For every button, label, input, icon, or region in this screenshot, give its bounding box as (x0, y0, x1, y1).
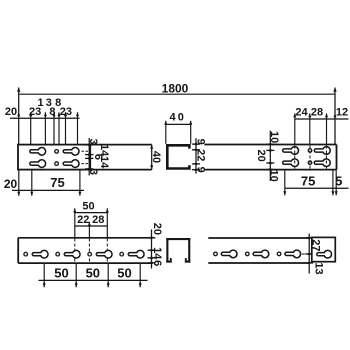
hole centerline vertical 3 (325, 146, 327, 169)
keyhole C row 1 (283, 147, 299, 155)
svg-text:75: 75 (301, 174, 315, 189)
extension line tick 1 top-left (30, 112, 32, 144)
extension line with down arrow x=31.8 (31, 170, 33, 196)
extension line with down arrow x=18.8 (18, 170, 20, 196)
front right round hole 1 (214, 252, 218, 256)
front right keyhole 3 (285, 250, 301, 258)
svg-text:1800: 1800 (162, 82, 189, 96)
svg-text:3: 3 (87, 169, 99, 175)
round hole row 2 (55, 162, 59, 166)
left extension of 40 with arrow (165, 121, 167, 144)
front right keyhole 2 (253, 250, 269, 258)
front right round hole 3 (277, 252, 281, 256)
dimension line 10-20-10 (269, 131, 271, 181)
keyhole D row 1 (314, 147, 330, 155)
svg-text:75: 75 (50, 175, 64, 190)
svg-text:14: 14 (98, 156, 110, 169)
extension line 50s x=44.2 (43, 263, 45, 287)
svg-text:20: 20 (151, 223, 163, 235)
extension line 24-28 x=294.8 (294, 113, 296, 144)
tick arrow 50 left (73, 208, 76, 212)
dimension line 50 small (74, 212, 107, 214)
dimension line 40 top (166, 123, 191, 125)
svg-text:20: 20 (5, 106, 17, 118)
profile tick y=158.4 (85, 157, 93, 159)
svg-text:10: 10 (268, 131, 280, 143)
extension line x=89.4 to hole (88, 222, 90, 238)
profile dimension line 3-14-6-14-3 (88, 138, 90, 176)
front round hole 3 (88, 252, 92, 256)
profile tick y=154.6 (85, 154, 93, 156)
right extension of 40 with arrow (190, 121, 192, 144)
svg-text:4 0: 4 0 (169, 111, 183, 123)
bottom profile right wall (188, 238, 190, 263)
extension line tick 4 top-left (58, 112, 60, 144)
extension line 50s x=108.2 (107, 263, 109, 287)
rail top edge at break (90, 144, 152, 146)
profile tick y=144.9 (85, 144, 93, 146)
dimension line 9-22-9 (195, 138, 197, 173)
svg-text:22: 22 (195, 149, 207, 161)
svg-text:40: 40 (150, 151, 162, 163)
right rail bottom edge (204, 169, 336, 171)
dimension line 20-75 (12, 189, 84, 191)
svg-text:28: 28 (311, 106, 323, 118)
svg-text:14: 14 (151, 247, 163, 260)
height dimension line 40 left (151, 145, 153, 170)
left rail outline top view (18, 145, 90, 170)
tick 9-22-9 y=149.8 (192, 149, 200, 151)
dimension line 50-50-50 (39, 279, 148, 281)
extension line x=107.3 to keyhole (106, 208, 108, 238)
svg-text:27: 27 (309, 239, 321, 251)
front rail top edge (18, 237, 151, 239)
round hole row 1 (55, 150, 59, 154)
extension line with down arrow x=79.9 (79, 170, 81, 196)
bottom profile left wall (166, 238, 168, 263)
bottom profile top bar (166, 238, 190, 240)
centerline dash row 2 (82, 163, 89, 165)
front keyhole 1 (32, 250, 48, 258)
tick 10-20-10 y=150.4 (266, 149, 274, 151)
tick 10-20-10 y=144.2 (266, 143, 274, 145)
svg-text:50: 50 (54, 266, 68, 281)
extension line below right rail x=332.9 (332, 170, 334, 196)
tick 27-13 y=237.9 (305, 237, 313, 239)
front right round hole 2 (246, 252, 250, 256)
svg-text:24: 24 (295, 106, 308, 118)
right rail top edge (204, 144, 336, 146)
extension line tick 5 top-left (65, 112, 67, 144)
extension line tick 3 top-left (53, 112, 55, 144)
dimension line 75-5 (285, 187, 349, 189)
svg-text:50: 50 (117, 266, 131, 281)
tick arrow on rail left extension (17, 112, 20, 116)
tick arrow 22-28 mid (88, 222, 91, 226)
end view box (312, 237, 336, 261)
svg-text:50: 50 (82, 201, 94, 213)
C-channel cross-section (166, 144, 191, 170)
bottom profile right lip (185, 261, 190, 263)
svg-text:50: 50 (86, 266, 100, 281)
front rail right bottom edge (208, 262, 308, 264)
svg-text:3: 3 (87, 139, 99, 145)
keyhole C row 2 (283, 159, 299, 167)
dimension line 22-28 (74, 225, 107, 227)
keyhole centerline dash to end (302, 253, 308, 255)
extension line x=74.8 to keyhole (74, 208, 76, 238)
extension line 50s x=76.2 (75, 263, 77, 287)
svg-text:20: 20 (255, 149, 267, 161)
tick 10-20-10 y=169.5 (266, 169, 274, 171)
left extension line of 1800 with arrow (18, 88, 20, 145)
hole centerline vertical 2 (309, 146, 311, 169)
bottom profile left lip (166, 261, 171, 263)
keyhole D row 2 (314, 159, 330, 167)
hole centerline vertical 1 (294, 146, 296, 169)
svg-text:20: 20 (4, 177, 18, 191)
extension line 24-28 x=309.8 (309, 113, 311, 144)
extension line tick 6 top-left (77, 112, 79, 144)
right rail end edge (336, 145, 338, 170)
front rail right top edge (208, 237, 308, 239)
extension line below right rail x=284.8 (284, 170, 286, 196)
round hole right rail row 2 (308, 161, 312, 165)
dimension line 20-14-6 (151, 230, 153, 269)
dimension line 1800 (19, 93, 335, 95)
extension line tick 2 top-left (44, 112, 46, 144)
tick 20-14-6 y=250.2 (148, 249, 156, 251)
tick 27-13 y=262.9 (305, 262, 313, 264)
rail bottom edge at break (90, 169, 152, 171)
keyhole B row 2 (63, 160, 79, 168)
profile tick y=168.9 (85, 168, 93, 170)
round hole right rail row 1 (308, 149, 312, 153)
tick 10-20-10 y=163 (266, 162, 274, 164)
front rail bottom edge (18, 262, 151, 264)
keyhole A row 2 (30, 160, 46, 168)
extension line below right rail x=336.2 (335, 170, 337, 196)
keyhole A row 1 (30, 147, 46, 155)
tick arrow at x=335 on 24-28-12 line (334, 113, 337, 117)
centerline dash row 1 (82, 150, 89, 152)
tick 9-22-9 y=163.9 (192, 163, 200, 165)
svg-text:13: 13 (312, 262, 324, 274)
dimension line 20-23-8-23 (10, 117, 80, 119)
tick 9-22-9 y=144.1 (192, 143, 200, 145)
dimension line 27-13 (308, 234, 310, 274)
front keyhole 4 (128, 250, 144, 258)
dimension line 24-28-12 (295, 118, 349, 120)
extension line 50s x=140.2 (139, 263, 141, 287)
keyhole B row 1 (63, 147, 79, 155)
front round hole 4 (120, 252, 124, 256)
front round hole 1 (24, 252, 28, 256)
tick 20-14-6 y=257.9 (148, 257, 156, 259)
svg-text:10: 10 (268, 169, 280, 181)
front rail left edge (17, 238, 19, 263)
tick 20-14-6 y=237.8 (148, 237, 156, 239)
front right keyhole 1 (221, 250, 237, 258)
front round hole 2 (56, 252, 60, 256)
svg-text:28: 28 (92, 214, 104, 226)
right extension line of 1800 with arrow (334, 88, 336, 145)
end view keyhole (317, 250, 332, 258)
front keyhole 2 (64, 250, 80, 258)
front keyhole 3 (96, 250, 112, 258)
tick 27-13 y=254 (305, 253, 313, 255)
svg-text:12: 12 (336, 106, 348, 118)
svg-text:6: 6 (151, 260, 163, 266)
tick 9-22-9 y=169.7 (192, 169, 200, 171)
tick 20-14-6 y=262.9 (148, 262, 156, 264)
extension line 24-28 x=326.5 (326, 113, 328, 144)
tick arrow 50 right (106, 208, 109, 212)
svg-text:22: 22 (77, 214, 89, 226)
